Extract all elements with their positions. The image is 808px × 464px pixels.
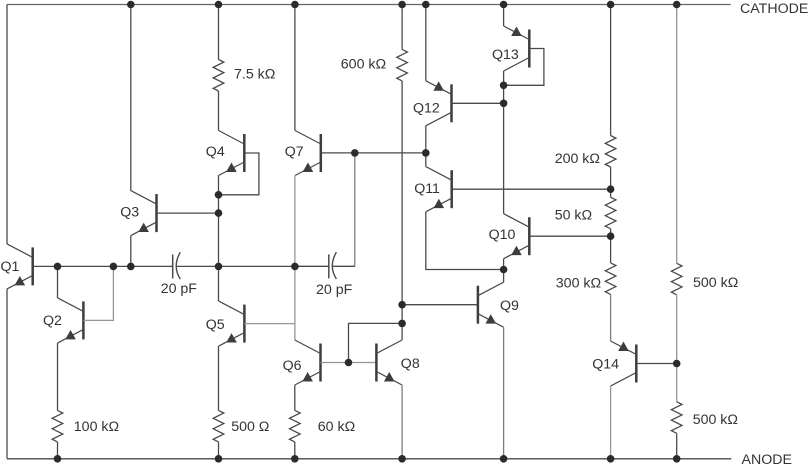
wire: Q1 base to node A <box>33 265 58 267</box>
svg-text:200 kΩ: 200 kΩ <box>555 151 600 167</box>
wire: CATHODE top rail <box>7 4 731 6</box>
svg-text:500 kΩ: 500 kΩ <box>693 412 738 428</box>
junction: Q12 collector / Q11 collector junction <box>422 149 430 157</box>
svg-text:CATHODE: CATHODE <box>740 1 808 17</box>
junction: Q8 collector junction <box>398 320 406 328</box>
wire: R7 to resistor 300k <box>610 229 612 263</box>
wire: cathode to resistor 7.5k (x218.5) <box>218 5 220 60</box>
svg-text:20 pF: 20 pF <box>161 281 198 297</box>
wire: base node riser loop to x402.1 <box>349 323 403 362</box>
junction on cathode rail x=218.5 <box>215 1 223 9</box>
svg-text:Q11: Q11 <box>414 181 440 197</box>
wire: Q10 base to 50k/300k junction <box>529 235 610 237</box>
junction on cathode rail x=676.7 <box>673 1 681 9</box>
wire: Q14 base node down to resistor 500k lower <box>676 364 678 402</box>
junction on node A x=113.4 <box>110 263 118 271</box>
transistor Q4 <box>219 131 245 176</box>
wire: riser from C2 up to Q7 base line <box>354 153 356 266</box>
svg-text:Q14: Q14 <box>592 356 619 372</box>
wire: Q2 emitter down to resistor 100k <box>57 343 59 411</box>
svg-text:500 Ω: 500 Ω <box>231 419 269 435</box>
wire: R5 down to Q8 collector bend (crosses Q7 base line) <box>401 81 403 340</box>
wire: Q3 base to x218.5 <box>157 212 219 214</box>
junction on node A x=294.9 <box>291 263 299 271</box>
wire: R6 to resistor 50k <box>610 167 612 197</box>
junction on anode rail x=294.8 <box>291 455 299 463</box>
wire: ANODE bottom rail <box>7 458 731 460</box>
wire: x294.9 node A down to Q6 collector bend <box>294 266 296 340</box>
wire: node A horizontal (x294.9 to cap C2) <box>295 265 329 267</box>
junction on cathode rail x=130.8 <box>127 1 135 9</box>
wire: Q5 emitter down to resistor 500 <box>218 346 220 410</box>
svg-text:Q4: Q4 <box>206 144 225 160</box>
wire: Q11 emitter down and right to junction <box>426 212 504 270</box>
svg-text:50 kΩ: 50 kΩ <box>555 208 592 224</box>
junction on cathode rail x=425.8 <box>422 1 430 9</box>
wire: Q8 emitter down to anode <box>401 385 403 459</box>
wire: cathode to resistor 500k upper <box>676 5 678 264</box>
resistor R2 7.5 kOhm <box>213 60 224 92</box>
resistor R9 500 kOhm (upper) <box>671 263 682 295</box>
svg-text:Q12: Q12 <box>413 100 440 116</box>
junction: Q4 emitter/base junction <box>215 191 223 199</box>
wire: node A horizontal (x218.5 to x294.9) <box>219 265 295 267</box>
junction on anode rail x=676.7 <box>673 455 681 463</box>
svg-text:20 pF: 20 pF <box>316 282 353 298</box>
wire: node A down to Q5 collector bend <box>218 266 220 301</box>
junction on anode rail x=402.1 <box>398 455 406 463</box>
transistor Q13 <box>504 26 530 71</box>
svg-text:Q6: Q6 <box>283 358 302 374</box>
wire: Q11 base to 200k/50k junction (crosses x503.6) <box>452 188 611 190</box>
wire: cathode to Q3 collector (x130.8) <box>130 5 132 191</box>
junction on cathode rail x=294.9 <box>291 1 299 9</box>
wire: Q12 base to x503.6 <box>452 102 504 104</box>
wire: Q9 collector up to junction <box>503 270 505 283</box>
junction on node A x=57.5 <box>54 263 62 271</box>
wire: cathode to resistor 600k <box>401 5 403 50</box>
wire: R9 to Q14 base node <box>676 295 678 364</box>
wire: cathode to resistor 200k <box>610 5 612 136</box>
resistor R3 500 Ohm <box>213 410 224 442</box>
transistor Q7 <box>295 131 321 176</box>
wire: node A horizontal (Q1 base dot to cap C1) <box>58 265 173 267</box>
junction on cathode rail x=402.1 <box>398 1 406 9</box>
resistor R1 100 kOhm <box>52 410 63 442</box>
junction: C2 riser / Q7 base junction <box>351 149 359 157</box>
svg-text:100 kΩ: 100 kΩ <box>74 419 119 435</box>
wire: Q10 collector feed (x503.6, crosses Q11 base) <box>503 103 505 213</box>
wire: R4 to anode rail <box>294 442 296 459</box>
resistor R6 200 kOhm <box>605 136 616 168</box>
transistor Q3 <box>131 191 157 236</box>
junction: 50k/300k / Q10 base junction <box>607 232 615 240</box>
wire: Q14 collector down to anode <box>610 386 612 459</box>
wire: cathode to Q7 collector (x294.9) <box>294 5 296 131</box>
wire: Q12 collector down to Q7-base node <box>425 126 427 153</box>
junction: Q3 base junction <box>215 209 223 217</box>
transistor Q8 <box>376 340 402 385</box>
wire: Q7 base line to Q12/Q11 collector node <box>321 152 426 154</box>
wire: Q9 emitter down to anode <box>503 327 505 459</box>
junction: Q14 base / 500k divider junction <box>673 360 681 368</box>
junction on anode rail x=218.5 <box>215 455 223 463</box>
svg-text:Q7: Q7 <box>285 144 304 160</box>
junction on cathode rail x=610.6 <box>607 1 615 9</box>
wire: Q5 base to x294.9 <box>244 323 295 325</box>
svg-text:Q8: Q8 <box>401 356 420 372</box>
svg-text:500 kΩ: 500 kΩ <box>693 275 738 291</box>
junction: Q13 collector/base junction <box>500 82 508 90</box>
svg-text:600 kΩ: 600 kΩ <box>341 56 386 72</box>
svg-text:Q10: Q10 <box>489 227 516 243</box>
svg-text:Q13: Q13 <box>492 47 519 63</box>
wire: Q13 base loop <box>504 49 544 86</box>
wire: x503.6 between Q13 collector and Q12 base nodes <box>503 85 505 103</box>
junction: Q12 base junction <box>500 100 508 108</box>
wire: node A horizontal (C1 to x218.5) <box>177 265 219 267</box>
wire: Q13 collector down to junction <box>503 71 505 85</box>
wire: cathode to Q13 emitter (x503.6) <box>503 5 505 27</box>
transistor Q5 <box>219 301 245 346</box>
junction: Q6/Q8 base junction <box>345 359 353 367</box>
resistor R5 600 kOhm <box>397 49 408 81</box>
resistor R7 50 kOhm <box>605 197 616 229</box>
junction on anode rail x=610.6 <box>607 455 615 463</box>
wire: Q2 collector feed from node A <box>57 266 59 298</box>
svg-text:300 kΩ: 300 kΩ <box>556 276 601 292</box>
transistor Q9 <box>478 282 504 327</box>
svg-text:7.5 kΩ: 7.5 kΩ <box>234 66 275 82</box>
resistor R10 500 kOhm (lower) <box>671 402 682 434</box>
wire: Q7 emitter down to node A <box>294 176 296 267</box>
wire: x218.5 junction to Q3-base junction <box>218 195 220 213</box>
junction on cathode rail x=503.6 <box>500 1 508 9</box>
wire: Q10 emitter segment to junction <box>503 259 505 270</box>
wire: Q6 emitter down to resistor 60k <box>294 385 296 410</box>
junction on anode rail x=503.6 <box>500 455 508 463</box>
svg-text:ANODE: ANODE <box>742 452 792 464</box>
transistor Q6 <box>295 340 321 385</box>
resistor R4 60 kOhm <box>290 410 301 442</box>
wire: Q4 base loop (right, down, to emitter node) <box>219 153 259 195</box>
junction on node A x=130.8 <box>127 263 135 271</box>
svg-text:Q9: Q9 <box>500 298 519 314</box>
junction on node A x=218.5 <box>215 263 223 271</box>
wire: Q6 base to Q8 base <box>321 362 377 364</box>
wire: R8 down to Q14 emitter bend <box>610 294 612 341</box>
wire: R2 down to Q4 collector bend <box>218 91 220 131</box>
transistor Q11 <box>426 167 452 212</box>
wire: R3 to anode rail <box>218 442 220 459</box>
junction: Q9 collector / Q10 emitter / Q11 emitter junction <box>500 266 508 274</box>
transistor Q10 <box>504 214 530 259</box>
wire: Q9 base from x402.1 <box>402 304 478 306</box>
capacitor C1 20 pF <box>172 255 174 279</box>
transistor Q1 <box>7 244 33 289</box>
wire: left edge upper (cathode to Q1 collector) <box>6 5 8 244</box>
svg-text:60 kΩ: 60 kΩ <box>318 419 355 435</box>
svg-text:Q3: Q3 <box>120 205 139 221</box>
junction on anode rail x=57.5 <box>54 455 62 463</box>
svg-text:Q1: Q1 <box>1 259 20 275</box>
wire: Q4 emitter down to junction <box>218 176 220 195</box>
wire: Q11 collector feed from node <box>425 153 427 167</box>
wire: node A horizontal (C2 to riser) <box>333 265 355 267</box>
svg-text:Q5: Q5 <box>206 317 225 333</box>
wire: x218.5 down to node A <box>218 213 220 266</box>
transistor Q12 <box>426 81 452 126</box>
wire: R10 to anode rail <box>676 433 678 459</box>
wire: cathode to Q12 emitter (x425.8) <box>425 5 427 81</box>
wire: Q2 base loop to node A <box>83 266 113 320</box>
junction: 200k/50k / Q11 base junction <box>607 185 615 193</box>
capacitor C2 20 pF <box>328 254 330 278</box>
transistor Q2 <box>58 298 84 343</box>
resistor R8 300 kOhm <box>605 263 616 295</box>
transistor Q14 <box>611 341 637 386</box>
wire: left edge lower (Q1 emitter to anode) <box>6 289 8 459</box>
junction: 600k / Q9 base junction <box>398 301 406 309</box>
wire: Q14 base to x676.7 <box>636 363 676 365</box>
svg-text:Q2: Q2 <box>43 313 62 329</box>
wire: R1 to anode rail <box>57 442 59 459</box>
wire: Q3 emitter down to node A <box>130 236 132 267</box>
